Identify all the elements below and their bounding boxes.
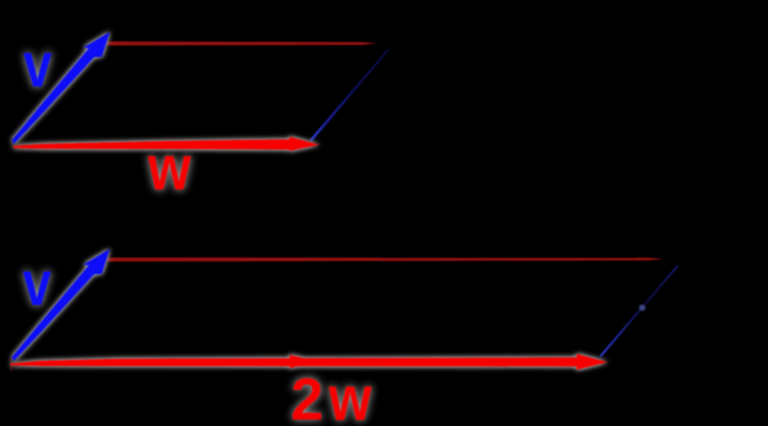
bright blob on dark blue line <box>639 305 645 311</box>
label w (top) <box>147 132 192 203</box>
svg-text:w: w <box>328 363 373 426</box>
svg-text:2: 2 <box>291 367 324 426</box>
faint vertical mark at origin <box>11 357 13 371</box>
label v (bottom) <box>23 249 52 319</box>
parallelogram right side (dark blue, translated v) <box>310 49 390 141</box>
vector v (blue arrow) <box>12 32 110 144</box>
w shaft and head <box>13 137 319 151</box>
svg-text:v: v <box>23 31 52 101</box>
svg-text:v: v <box>23 249 52 319</box>
parallelogram top side (dark red, translated w) <box>106 41 378 45</box>
vector 2w (red arrow) <box>10 354 607 370</box>
2w shaft and end head <box>10 354 607 370</box>
label 2w (bottom) <box>291 363 373 426</box>
mid arrowhead of w <box>290 355 318 368</box>
vector v (blue arrow, bottom) <box>12 249 110 361</box>
label v (top) <box>23 31 52 101</box>
parallelogram right side (dark blue, translated v) <box>600 265 679 357</box>
parallelogram top side (dark red, translated 2w) <box>106 258 663 262</box>
svg-text:w: w <box>147 132 192 203</box>
vector w (red arrow) <box>13 137 319 151</box>
